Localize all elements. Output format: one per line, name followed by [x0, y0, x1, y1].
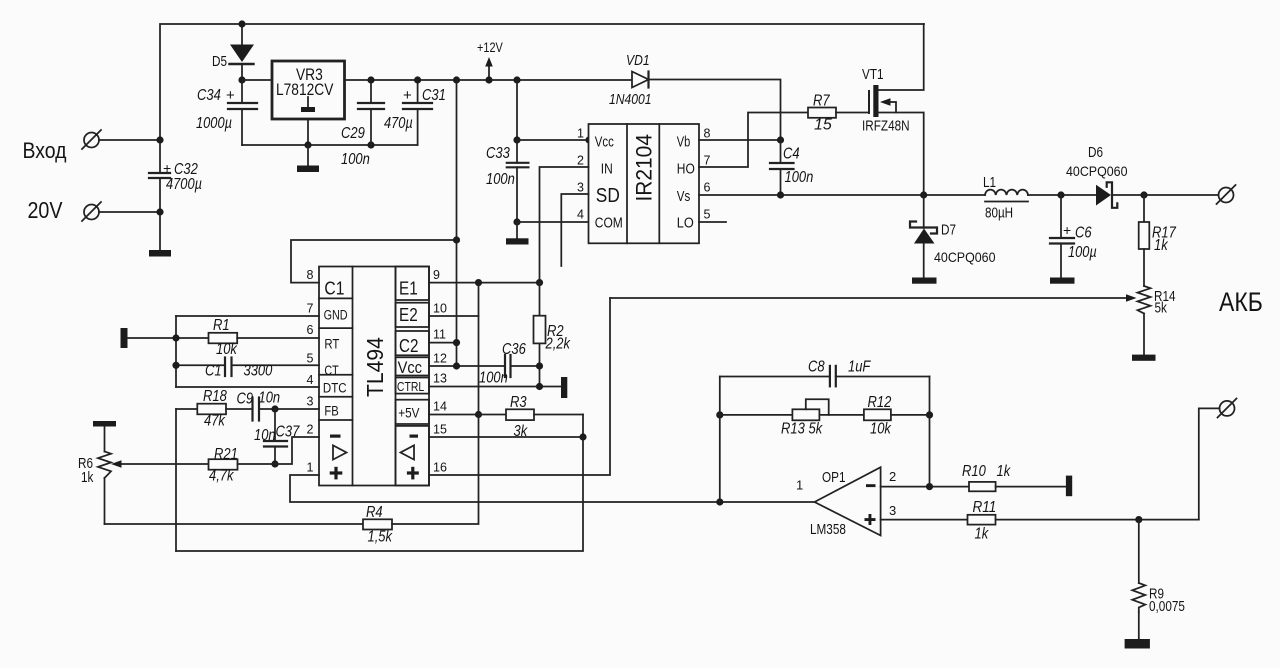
wire C9 to pin3 FB [259, 408, 319, 410]
junction input node [156, 136, 163, 143]
resistor R12 [864, 409, 891, 420]
label R17 [1152, 225, 1177, 255]
svg-text:R21: R21 [214, 446, 238, 463]
svg-text:10n: 10n [254, 427, 276, 444]
svg-text:100n: 100n [479, 370, 508, 387]
resistor R10 [969, 482, 996, 491]
svg-text:1uF: 1uF [848, 359, 871, 376]
svg-text:+: + [403, 87, 412, 104]
capacitor C8 [720, 366, 930, 386]
junction C29 top [367, 76, 374, 83]
label TL494 cells left [323, 279, 348, 419]
wire to terminal minus [1199, 408, 1220, 519]
label R21 [209, 446, 238, 485]
junction D5 cathode node [238, 76, 245, 83]
svg-text:IRFZ48N: IRFZ48N [862, 119, 910, 135]
op-amp U1 TL494 body [319, 267, 429, 486]
svg-text:+12V: +12V [477, 40, 503, 55]
capacitor C32 [149, 173, 170, 178]
wire R3 left [479, 414, 507, 416]
svg-text:TL494: TL494 [362, 337, 388, 397]
wire gnd vertical R1/C1 [175, 316, 177, 387]
svg-text:80µH: 80µH [985, 206, 1013, 222]
svg-text:FB: FB [324, 403, 338, 419]
junction E1/E2 [475, 279, 482, 286]
wire pin14 +5V [429, 414, 479, 416]
resistor R2 [534, 283, 546, 387]
svg-text:3: 3 [889, 503, 896, 518]
label VT1 [862, 67, 910, 135]
svg-text:C37: C37 [276, 424, 301, 441]
label R1 [213, 317, 238, 358]
wire R21 to pin2 [238, 437, 320, 464]
svg-text:COM: COM [595, 215, 623, 232]
svg-text:9: 9 [433, 268, 440, 282]
wire Вход terminal to input node [99, 139, 160, 141]
op-amp U2 IR2104 body [589, 124, 700, 243]
svg-text:16: 16 [433, 461, 447, 475]
wire pin3 to R11 [881, 519, 968, 521]
wire pin9 E1 row [429, 282, 540, 284]
diode D6 40CPQ060 [1096, 182, 1117, 208]
label C36 [479, 341, 526, 387]
label C9 10n [237, 390, 281, 408]
capacitor C34 [228, 80, 257, 145]
svg-text:Vcc: Vcc [595, 135, 614, 151]
wire VD1 cathode to Vb node [649, 80, 781, 141]
capacitor C36 [505, 355, 511, 377]
ground below VR3 [297, 145, 319, 172]
svg-text:7: 7 [704, 154, 711, 168]
svg-text:40CPQ060: 40CPQ060 [1066, 163, 1128, 179]
resistor R7 [808, 108, 836, 118]
label R14 [1154, 289, 1176, 317]
label C31 [384, 87, 446, 132]
svg-text:CT: CT [324, 362, 339, 378]
junction C37 top [271, 405, 278, 412]
junction pin2 / C8 [926, 483, 933, 490]
potentiometer R14 [1138, 286, 1151, 355]
svg-text:C31: C31 [422, 87, 446, 104]
junction +5V node [475, 411, 482, 418]
label C1 3300 [205, 363, 272, 380]
svg-text:47k: 47k [204, 413, 226, 430]
svg-text:CTRL: CTRL [397, 379, 424, 394]
svg-text:12: 12 [433, 352, 447, 366]
label C32 [163, 160, 202, 193]
wire R7 to gate [836, 112, 869, 114]
resistor R9 shunt [1132, 520, 1145, 639]
label R6 [78, 456, 94, 486]
diode D7 40CPQ060 [910, 195, 937, 278]
svg-text:5: 5 [704, 208, 711, 222]
junction R17 tap [1140, 191, 1147, 198]
junction C33 branch on rail [513, 76, 520, 83]
wire HO pin7 to R7 [699, 113, 808, 168]
wire +12V vertical to Vcc/C2 [456, 80, 458, 366]
svg-text:2: 2 [307, 423, 314, 437]
svg-text:E1: E1 [399, 279, 418, 299]
wire R12 to right vertical [891, 414, 930, 416]
resistor R4 [363, 519, 392, 529]
svg-text:R7: R7 [813, 93, 830, 110]
bar terminal at CTRL [561, 377, 567, 398]
wire pin4 DTC [176, 386, 319, 388]
svg-text:14: 14 [433, 400, 447, 414]
svg-text:1k: 1k [975, 526, 990, 543]
svg-text:10k: 10k [216, 341, 238, 358]
wire SD pin3 stub [561, 194, 588, 266]
power symbol +12V [485, 57, 493, 80]
svg-text:1: 1 [796, 478, 803, 493]
svg-text:L7812CV: L7812CV [276, 80, 334, 99]
junction top rail / D5 [238, 20, 245, 27]
capacitor C31 [403, 80, 432, 145]
svg-text:15: 15 [814, 117, 832, 134]
wire L1 to D6 [1028, 194, 1096, 196]
svg-text:1k: 1k [81, 470, 94, 486]
svg-text:5k: 5k [809, 421, 824, 438]
svg-text:R12: R12 [868, 394, 892, 411]
wire D5 to VR3 input [242, 79, 272, 81]
label R18 [203, 388, 227, 430]
svg-text:2: 2 [889, 469, 896, 484]
svg-text:+5V: +5V [398, 404, 420, 420]
svg-text:HO: HO [677, 161, 695, 177]
wire wiper arrow from pin16 [610, 294, 1137, 301]
label C34 [196, 87, 235, 132]
svg-text:C8: C8 [808, 359, 825, 376]
svg-text:D6: D6 [1088, 145, 1103, 161]
wire R13 row left [720, 414, 793, 416]
capacitor C6 [1050, 195, 1074, 278]
svg-text:2: 2 [577, 154, 584, 168]
svg-text:4: 4 [577, 208, 584, 222]
resistor R3 [506, 409, 534, 420]
junction E1/IN/R2 [536, 279, 543, 286]
capacitor C4 [770, 140, 794, 195]
wire C33 branch vertical [516, 80, 518, 163]
svg-text:D7: D7 [941, 223, 956, 239]
junction C2 [453, 339, 460, 346]
svg-text:C29: C29 [341, 125, 365, 142]
svg-text:C36: C36 [502, 341, 526, 358]
svg-text:100µ: 100µ [1068, 244, 1097, 261]
svg-text:4: 4 [307, 373, 314, 387]
svg-text:L1: L1 [983, 175, 996, 191]
label R7 [813, 93, 832, 134]
junction R12 right [926, 411, 933, 418]
svg-text:1,5k: 1,5k [368, 529, 393, 546]
ground below R9 [1125, 639, 1150, 649]
wire FB to pin15 link [176, 415, 583, 552]
wire IN pin2 to E1 node [540, 167, 589, 283]
svg-text:Vb: Vb [677, 135, 691, 151]
svg-text:1: 1 [307, 461, 314, 475]
junction VT1 source on Vs [920, 191, 927, 198]
wire LO pin5 stub [699, 221, 726, 223]
svg-text:10: 10 [433, 302, 447, 316]
label R9 0,0075 [1149, 587, 1185, 616]
label R3 [510, 394, 528, 440]
svg-text:C1: C1 [205, 363, 222, 380]
junction Vcc branch on rail [453, 76, 460, 83]
wire ground bus under VR3 [242, 144, 418, 146]
svg-text:1k: 1k [1154, 237, 1169, 254]
wire pin1 to OP1 output [290, 475, 815, 502]
label OP1 [796, 469, 896, 538]
resistor R17 [1139, 195, 1150, 286]
svg-text:VT1: VT1 [862, 67, 884, 83]
svg-text:VD1: VD1 [626, 52, 650, 69]
svg-text:100n: 100n [486, 171, 515, 188]
label R10 1k [962, 463, 1011, 480]
svg-text:LO: LO [677, 216, 694, 232]
wire pin2 inverting input [881, 486, 969, 488]
label VR3 [276, 65, 334, 99]
wire 20V terminal to node [99, 211, 160, 213]
svg-text:C2: C2 [399, 336, 418, 356]
capacitor C9 [253, 398, 260, 421]
wire top rail branch to D5 [241, 24, 243, 45]
junction C37 bottom [271, 460, 278, 467]
resistor R1 [209, 333, 238, 344]
svg-text:Vcc: Vcc [398, 358, 423, 377]
svg-text:8: 8 [704, 127, 711, 141]
wire R4 to +5V vertical [392, 283, 479, 524]
wire pin12 Vcc to C36 [429, 365, 505, 367]
wire pin7 GND [176, 315, 319, 317]
capacitor C37 [264, 409, 287, 464]
label R12 [868, 394, 892, 438]
svg-text:C9: C9 [237, 391, 254, 408]
svg-text:D5: D5 [212, 54, 227, 70]
svg-text:+: + [163, 160, 171, 176]
svg-text:5: 5 [307, 352, 314, 366]
label IR2104 pins [595, 135, 695, 232]
bar terminal at R10 [1066, 476, 1072, 497]
svg-text:IN: IN [601, 161, 613, 177]
svg-text:1: 1 [577, 127, 584, 141]
diode D5 [230, 45, 255, 81]
wire COM pin4 [517, 221, 589, 223]
svg-text:R10: R10 [962, 463, 986, 480]
junction C1 left [172, 362, 179, 369]
svg-text:40CPQ060: 40CPQ060 [934, 249, 996, 265]
svg-text:8: 8 [307, 268, 314, 282]
junction C4 bottom on Vs [777, 191, 784, 198]
svg-text:RT: RT [324, 336, 339, 352]
wire pin13 CTRL to bar [429, 386, 561, 388]
junction C31 top [414, 76, 421, 83]
ground below C6 [1050, 278, 1075, 284]
junction at Vcc pin [585, 136, 592, 143]
svg-text:3: 3 [577, 181, 584, 195]
terminal 20V [82, 202, 101, 221]
label TL494 cells right [397, 279, 424, 421]
wire R6 bottom to R4 [105, 523, 364, 525]
svg-text:13: 13 [433, 372, 447, 386]
wire +12V rail [345, 79, 633, 81]
wire R1 to pin6 RT [237, 337, 319, 339]
diode VD1 1N4001 [632, 72, 649, 88]
svg-text:R18: R18 [203, 388, 227, 405]
svg-text:LM358: LM358 [810, 522, 846, 538]
ground below D7 [912, 278, 937, 284]
wire C8 right vertical [929, 377, 931, 487]
junction C1 branch [453, 236, 460, 243]
svg-text:C4: C4 [783, 146, 800, 163]
wire R13 to R12 [819, 414, 864, 416]
junction COM tee [513, 218, 520, 225]
wire input vertical lower [159, 178, 161, 250]
op-amp OP1 LM358 [815, 467, 881, 535]
svg-text:1k: 1k [997, 463, 1012, 480]
svg-text:3k: 3k [514, 423, 529, 440]
resistor R21 [209, 459, 238, 470]
svg-text:R13: R13 [781, 421, 805, 438]
svg-text:DTC: DTC [323, 381, 347, 396]
resistor R18 [197, 404, 226, 415]
junction CTRL [536, 383, 543, 390]
wire R3 right to pin15 [534, 414, 583, 416]
label C29 [341, 125, 370, 168]
wire FB vertical left [175, 409, 177, 551]
wire Vb pin8 [699, 139, 781, 141]
svg-text:10n: 10n [259, 390, 281, 407]
label R4 [366, 504, 393, 546]
svg-text:100n: 100n [785, 169, 814, 186]
svg-text:1N4001: 1N4001 [609, 91, 652, 108]
svg-text:6: 6 [307, 323, 314, 337]
wire input vertical upper [160, 24, 924, 173]
inductor L1 [985, 190, 1028, 202]
svg-text:R1: R1 [213, 317, 230, 334]
capacitor C33 [507, 163, 529, 222]
junction C29 on bus [367, 141, 374, 148]
resistor R11 [968, 515, 996, 525]
svg-text:6: 6 [704, 181, 711, 195]
label L1 [983, 175, 1013, 222]
bar terminal above R6 [93, 421, 116, 427]
terminal output plus [1217, 185, 1236, 204]
wire pin11 C2 [429, 342, 457, 344]
capacitor C29 [358, 80, 384, 145]
svg-text:5k: 5k [1155, 301, 1168, 317]
svg-text:C34: C34 [197, 87, 221, 104]
wire bar to R1 [128, 337, 209, 339]
svg-text:3: 3 [307, 395, 314, 409]
junction pin15 node [579, 433, 586, 440]
svg-text:+: + [1063, 222, 1071, 238]
ground below C33 [506, 222, 529, 245]
svg-text:C33: C33 [486, 145, 510, 162]
svg-text:4700µ: 4700µ [166, 176, 202, 193]
junction R2 bottom [536, 362, 543, 369]
junction OP1 out / C8 left [716, 498, 723, 505]
ground below C32 [149, 250, 171, 257]
junction R9 top [1135, 516, 1142, 523]
label TL494 pin numbers [307, 268, 447, 475]
junction C6 on line [1057, 191, 1064, 198]
wire VR3 ground pin [307, 119, 309, 145]
svg-text:IR2104: IR2104 [631, 134, 657, 201]
svg-text:C1: C1 [324, 279, 344, 299]
junction R13 left [716, 411, 723, 418]
junction 20V node [156, 208, 163, 215]
svg-text:470µ: 470µ [384, 115, 413, 132]
wire pin16 to R14 [429, 298, 610, 475]
junction Vb node [777, 136, 784, 143]
wire R6 wiper arrow [111, 460, 209, 467]
svg-text:0,0075: 0,0075 [1149, 599, 1185, 615]
svg-text:R3: R3 [510, 394, 527, 411]
svg-text:2,2k: 2,2k [545, 336, 571, 353]
svg-text:Vs: Vs [677, 189, 691, 205]
wire Vs pin6 line [699, 194, 985, 196]
svg-text:10k: 10k [870, 421, 892, 438]
label VD1 [609, 52, 652, 108]
regulator VR3 L7812CV [272, 61, 345, 119]
label C4 [783, 146, 813, 187]
svg-text:7: 7 [307, 302, 314, 316]
svg-text:C6: C6 [1075, 225, 1092, 242]
wire R18 to C9 [226, 408, 253, 410]
terminal Вход [82, 130, 101, 149]
ground below R14 [1132, 355, 1156, 361]
potentiometer R6 [98, 427, 111, 525]
svg-text:R11: R11 [973, 499, 997, 516]
wire R11 to sense node [996, 519, 1199, 521]
wire to R18 [176, 408, 197, 410]
wire pin15 row [429, 436, 583, 438]
svg-text:R4: R4 [366, 504, 383, 521]
wire pin10 E2 [429, 315, 479, 317]
junction +12V on rail [485, 76, 492, 83]
svg-text:3300: 3300 [244, 363, 273, 380]
label R2 [545, 323, 571, 353]
svg-text:11: 11 [433, 328, 446, 342]
label C8 1uF [808, 359, 871, 376]
wire C8 left vertical [719, 377, 721, 503]
svg-text:SD: SD [596, 185, 620, 207]
potentiometer R13 [792, 399, 828, 420]
terminal output minus [1218, 399, 1237, 418]
junction VR3 gnd on bus [304, 141, 311, 148]
svg-text:E2: E2 [399, 305, 418, 325]
svg-text:GND: GND [324, 308, 348, 323]
wire D6 to output terminal [1112, 194, 1219, 196]
wire to Vcc pin1 [517, 139, 589, 141]
label R11 1k [973, 499, 997, 543]
bar terminal left of R1 [121, 328, 128, 348]
label C37 10n [254, 424, 300, 445]
junction R1 left [172, 334, 179, 341]
junction Vcc pin12 [453, 362, 460, 369]
svg-text:OP1: OP1 [822, 470, 846, 486]
svg-text:+: + [226, 87, 235, 104]
junction Vcc tee [513, 136, 520, 143]
wire R10 to bar [996, 486, 1066, 488]
svg-text:100n: 100n [341, 151, 370, 168]
label C33 [486, 145, 515, 188]
label D6 [1066, 145, 1128, 179]
transistor VT1 IRFZ48N [869, 24, 924, 195]
wire pin8 C1 to +12V vertical [291, 240, 457, 283]
svg-text:Вход: Вход [23, 138, 67, 163]
svg-text:20V: 20V [28, 197, 64, 223]
svg-text:4,7k: 4,7k [209, 468, 234, 485]
